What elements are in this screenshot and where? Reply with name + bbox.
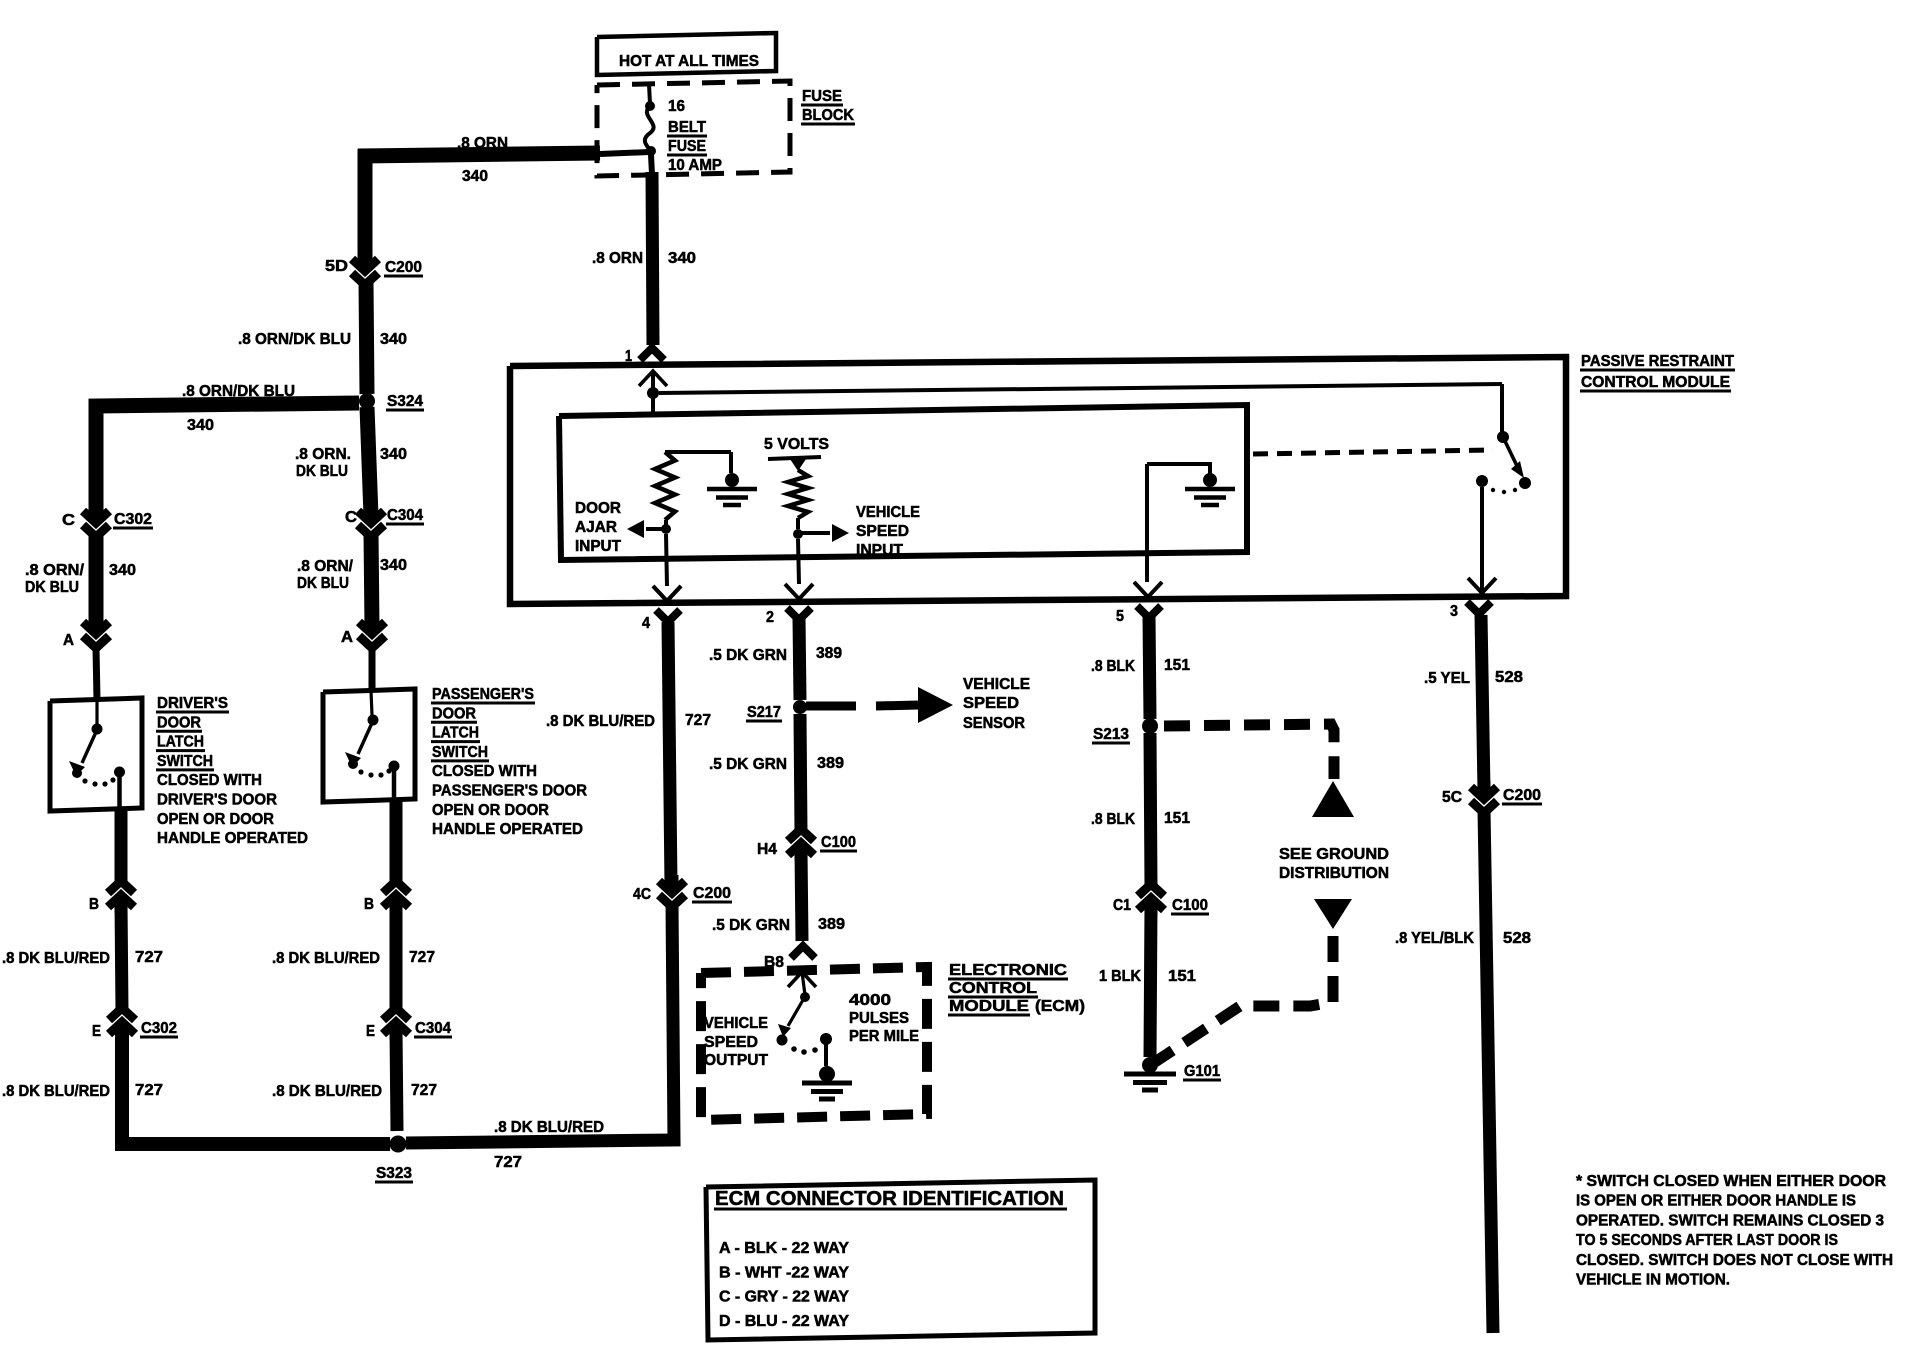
svg-text:C302: C302 bbox=[114, 511, 152, 528]
svg-text:727: 727 bbox=[135, 1082, 163, 1099]
svg-text:MODULE: MODULE bbox=[949, 998, 1029, 1015]
svg-text:.8 DK BLU/RED: .8 DK BLU/RED bbox=[272, 950, 380, 967]
svg-text:.8 ORN/: .8 ORN/ bbox=[297, 558, 354, 575]
svg-text:389: 389 bbox=[816, 645, 842, 662]
svg-text:SPEED: SPEED bbox=[856, 523, 909, 540]
svg-text:5D: 5D bbox=[325, 258, 348, 275]
svg-text:INPUT: INPUT bbox=[856, 542, 903, 559]
svg-text:SENSOR: SENSOR bbox=[963, 715, 1025, 732]
svg-text:340: 340 bbox=[462, 168, 488, 185]
svg-text:OPEN OR DOOR: OPEN OR DOOR bbox=[432, 802, 549, 819]
svg-text:ECM CONNECTOR IDENTIFICATION: ECM CONNECTOR IDENTIFICATION bbox=[715, 1188, 1064, 1210]
svg-text:1: 1 bbox=[625, 348, 632, 365]
svg-text:.8 ORN/DK BLU: .8 ORN/DK BLU bbox=[238, 331, 351, 348]
svg-text:2: 2 bbox=[766, 609, 774, 626]
svg-text:3: 3 bbox=[1450, 603, 1458, 620]
svg-text:727: 727 bbox=[409, 949, 435, 966]
svg-text:5: 5 bbox=[1116, 608, 1124, 625]
svg-text:340: 340 bbox=[109, 562, 136, 579]
svg-text:PASSENGER'S DOOR: PASSENGER'S DOOR bbox=[432, 783, 587, 800]
svg-text:C - GRY - 22 WAY: C - GRY - 22 WAY bbox=[719, 1289, 849, 1306]
svg-text:151: 151 bbox=[1164, 657, 1190, 674]
svg-text:.5 DK GRN: .5 DK GRN bbox=[709, 756, 787, 773]
svg-text:FUSE: FUSE bbox=[668, 138, 706, 155]
svg-text:VEHICLE: VEHICLE bbox=[963, 676, 1030, 693]
svg-text:SWITCH: SWITCH bbox=[157, 753, 213, 770]
svg-text:C304: C304 bbox=[387, 507, 423, 524]
svg-text:OPEN OR DOOR: OPEN OR DOOR bbox=[157, 811, 274, 828]
svg-text:BELT: BELT bbox=[668, 119, 706, 136]
svg-text:.8 DK BLU/RED: .8 DK BLU/RED bbox=[2, 1083, 110, 1100]
svg-text:CONTROL MODULE: CONTROL MODULE bbox=[1581, 374, 1730, 391]
svg-text:A: A bbox=[63, 632, 74, 649]
svg-text:.8 ORN.: .8 ORN. bbox=[295, 446, 351, 463]
svg-text:340: 340 bbox=[380, 331, 407, 348]
svg-text:C: C bbox=[345, 509, 357, 526]
svg-text:SEE GROUND: SEE GROUND bbox=[1279, 846, 1389, 863]
svg-text:PER MILE: PER MILE bbox=[849, 1028, 919, 1045]
svg-text:727: 727 bbox=[685, 712, 711, 729]
svg-text:H4: H4 bbox=[757, 841, 777, 858]
svg-text:.8 DK BLU/RED: .8 DK BLU/RED bbox=[546, 713, 655, 730]
svg-text:DRIVER'S DOOR: DRIVER'S DOOR bbox=[157, 792, 277, 809]
svg-text:340: 340 bbox=[187, 417, 214, 434]
svg-text:.8 BLK: .8 BLK bbox=[1091, 658, 1135, 675]
svg-text:10 AMP: 10 AMP bbox=[668, 157, 722, 174]
svg-text:D - BLU - 22 WAY: D - BLU - 22 WAY bbox=[719, 1313, 849, 1330]
svg-text:DOOR: DOOR bbox=[432, 705, 476, 722]
svg-text:727: 727 bbox=[135, 949, 163, 966]
svg-text:S217: S217 bbox=[747, 704, 781, 721]
svg-text:B: B bbox=[89, 896, 99, 913]
svg-text:DOOR: DOOR bbox=[157, 714, 201, 731]
svg-text:(ECM): (ECM) bbox=[1035, 998, 1085, 1015]
svg-text:389: 389 bbox=[817, 755, 844, 772]
svg-text:4000: 4000 bbox=[849, 992, 891, 1009]
svg-text:ELECTRONIC: ELECTRONIC bbox=[949, 962, 1068, 979]
svg-text:DRIVER'S: DRIVER'S bbox=[157, 695, 228, 712]
svg-text:SPEED: SPEED bbox=[963, 695, 1019, 712]
svg-text:DK BLU: DK BLU bbox=[296, 463, 348, 480]
svg-text:PULSES: PULSES bbox=[849, 1010, 909, 1027]
svg-text:INPUT: INPUT bbox=[575, 538, 621, 555]
svg-text:SPEED: SPEED bbox=[704, 1034, 758, 1051]
svg-text:389: 389 bbox=[818, 916, 845, 933]
svg-text:* SWITCH CLOSED WHEN EITHER: * SWITCH CLOSED WHEN EITHER DOOR bbox=[1576, 1173, 1886, 1190]
svg-text:.8 DK BLU/RED: .8 DK BLU/RED bbox=[272, 1083, 382, 1100]
svg-text:5 VOLTS: 5 VOLTS bbox=[764, 436, 829, 453]
svg-text:DOOR: DOOR bbox=[575, 500, 621, 517]
svg-text:OUTPUT: OUTPUT bbox=[704, 1052, 768, 1069]
svg-text:G101: G101 bbox=[1184, 1063, 1220, 1080]
svg-text:.8 YEL/BLK: .8 YEL/BLK bbox=[1395, 930, 1474, 947]
svg-text:S213: S213 bbox=[1093, 726, 1129, 743]
svg-text:C100: C100 bbox=[821, 834, 856, 851]
svg-text:1 BLK: 1 BLK bbox=[1099, 968, 1141, 985]
svg-text:.5 YEL: .5 YEL bbox=[1424, 670, 1470, 687]
svg-text:.8 ORN: .8 ORN bbox=[457, 135, 508, 152]
svg-text:.8 ORN/: .8 ORN/ bbox=[25, 562, 85, 579]
svg-text:C304: C304 bbox=[415, 1020, 451, 1037]
svg-text:DK BLU: DK BLU bbox=[25, 579, 79, 596]
svg-text:CLOSED WITH: CLOSED WITH bbox=[432, 763, 537, 780]
svg-text:HOT AT ALL TIMES: HOT AT ALL TIMES bbox=[619, 53, 759, 70]
svg-text:CLOSED. SWITCH DOES NOT CLOSE: CLOSED. SWITCH DOES NOT CLOSE WITH bbox=[1576, 1252, 1893, 1269]
svg-text:DISTRIBUTION: DISTRIBUTION bbox=[1279, 865, 1389, 882]
svg-text:.5 DK GRN: .5 DK GRN bbox=[709, 647, 787, 664]
svg-text:VEHICLE: VEHICLE bbox=[856, 504, 920, 521]
svg-text:DK BLU: DK BLU bbox=[297, 575, 349, 592]
svg-text:BLOCK: BLOCK bbox=[802, 107, 854, 124]
svg-text:VEHICLE IN MOTION.: VEHICLE IN MOTION. bbox=[1576, 1272, 1730, 1289]
svg-text:TO 5 SECONDS AFTER LAST DOOR I: TO 5 SECONDS AFTER LAST DOOR IS bbox=[1576, 1232, 1838, 1249]
svg-text:HANDLE OPERATED: HANDLE OPERATED bbox=[432, 821, 583, 838]
svg-text:C: C bbox=[62, 512, 75, 529]
svg-text:S323: S323 bbox=[376, 1165, 412, 1182]
svg-text:C1: C1 bbox=[1113, 897, 1131, 914]
svg-text:528: 528 bbox=[1495, 669, 1523, 686]
svg-text:PASSENGER'S: PASSENGER'S bbox=[432, 686, 534, 703]
svg-text:4: 4 bbox=[642, 615, 650, 632]
svg-text:C302: C302 bbox=[141, 1020, 177, 1037]
svg-text:16: 16 bbox=[668, 98, 685, 115]
svg-text:LATCH: LATCH bbox=[432, 725, 479, 742]
svg-text:LATCH: LATCH bbox=[157, 734, 204, 751]
svg-text:HANDLE OPERATED: HANDLE OPERATED bbox=[157, 830, 308, 847]
svg-text:340: 340 bbox=[380, 446, 407, 463]
svg-text:A - BLK - 22 WAY: A - BLK - 22 WAY bbox=[719, 1240, 849, 1257]
svg-text:C200: C200 bbox=[693, 885, 731, 902]
svg-text:.8 ORN: .8 ORN bbox=[592, 250, 643, 267]
svg-text:A: A bbox=[341, 629, 353, 646]
svg-text:.5 DK GRN: .5 DK GRN bbox=[712, 917, 790, 934]
svg-text:B - WHT -22 WAY: B - WHT -22 WAY bbox=[719, 1264, 849, 1281]
svg-text:CLOSED WITH: CLOSED WITH bbox=[157, 772, 262, 789]
svg-text:SWITCH: SWITCH bbox=[432, 744, 488, 761]
svg-text:CONTROL: CONTROL bbox=[949, 980, 1037, 997]
svg-text:C200: C200 bbox=[1503, 787, 1541, 804]
svg-text:.8 ORN/DK BLU: .8 ORN/DK BLU bbox=[182, 383, 295, 400]
svg-text:IS OPEN OR EITHER DOOR HANDLE: IS OPEN OR EITHER DOOR HANDLE IS bbox=[1576, 1193, 1856, 1210]
svg-text:C200: C200 bbox=[385, 259, 422, 276]
svg-text:.8 DK BLU/RED: .8 DK BLU/RED bbox=[2, 950, 110, 967]
svg-text:727: 727 bbox=[411, 1082, 437, 1099]
svg-text:FUSE: FUSE bbox=[802, 88, 842, 105]
svg-text:340: 340 bbox=[668, 250, 696, 267]
svg-text:151: 151 bbox=[1168, 968, 1196, 985]
svg-text:PASSIVE RESTRAINT: PASSIVE RESTRAINT bbox=[1581, 353, 1734, 370]
svg-text:E: E bbox=[92, 1023, 101, 1040]
svg-text:B: B bbox=[364, 896, 374, 913]
svg-text:.8 DK BLU/RED: .8 DK BLU/RED bbox=[494, 1119, 604, 1136]
svg-text:S324: S324 bbox=[387, 393, 423, 410]
svg-text:5C: 5C bbox=[1442, 789, 1462, 806]
svg-text:340: 340 bbox=[380, 557, 407, 574]
svg-text:.8 BLK: .8 BLK bbox=[1091, 811, 1135, 828]
svg-text:151: 151 bbox=[1164, 810, 1190, 827]
svg-text:E: E bbox=[366, 1023, 375, 1040]
svg-text:528: 528 bbox=[1503, 930, 1531, 947]
svg-text:4C: 4C bbox=[633, 886, 651, 903]
svg-text:AJAR: AJAR bbox=[575, 519, 617, 536]
svg-text:VEHICLE: VEHICLE bbox=[704, 1015, 768, 1032]
svg-text:727: 727 bbox=[494, 1154, 522, 1171]
svg-text:C100: C100 bbox=[1172, 897, 1208, 914]
svg-text:OPERATED. SWITCH REMAINS CLOSE: OPERATED. SWITCH REMAINS CLOSED 3 bbox=[1576, 1212, 1884, 1229]
